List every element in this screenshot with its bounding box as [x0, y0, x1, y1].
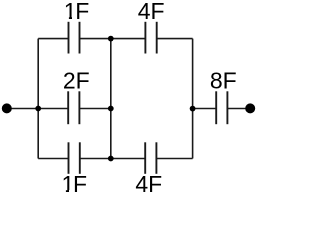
svg-text:8F: 8F [210, 68, 237, 94]
svg-text:F: F [75, 0, 89, 24]
svg-text:4F: 4F [135, 171, 162, 197]
svg-text:4F: 4F [138, 0, 165, 24]
svg-text:2F: 2F [63, 68, 90, 94]
svg-text:F: F [73, 171, 87, 197]
